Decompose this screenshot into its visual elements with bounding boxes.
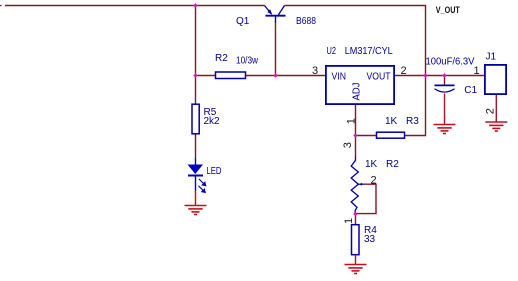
- svg-text:33: 33: [364, 234, 376, 245]
- junction node R2 left: [193, 73, 197, 77]
- svg-text:3: 3: [312, 65, 318, 77]
- capacitor C1 top plate: [435, 84, 455, 86]
- ground under C1: [434, 125, 456, 134]
- connector J1 box: [485, 65, 506, 94]
- junction node ADJ / R3: [353, 133, 357, 137]
- svg-text:1: 1: [474, 65, 480, 77]
- LED D1 triangle: [188, 158, 204, 174]
- svg-text:U2: U2: [327, 46, 337, 57]
- LED emission arrows: [199, 179, 206, 193]
- wire R3 right lead and vertical up to V_OUT node: [405, 76, 426, 136]
- resistor R2 body: [216, 72, 246, 79]
- wire LED cathode to ground: [195, 176, 197, 191]
- wire top rail left (input to Q1 emitter): [5, 5, 265, 7]
- transistor Q1 collector line: [278, 6, 284, 16]
- svg-text:R3: R3: [406, 116, 419, 127]
- svg-text:V_OUT: V_OUT: [436, 5, 460, 16]
- svg-text:Q1: Q1: [236, 16, 250, 27]
- wire pot bottom junction to R4: [355, 214, 357, 225]
- svg-text:100uF/6.3V: 100uF/6.3V: [426, 57, 475, 68]
- svg-text:1K: 1K: [385, 116, 398, 127]
- svg-text:10/3w: 10/3w: [236, 56, 259, 67]
- svg-text:2k2: 2k2: [204, 116, 221, 127]
- svg-text:LED: LED: [207, 166, 222, 177]
- ground under J1: [485, 122, 507, 131]
- svg-text:2: 2: [485, 108, 497, 114]
- transistor Q1 base bar: [266, 15, 286, 17]
- ground under R4: [345, 265, 367, 274]
- svg-text:C1: C1: [464, 85, 477, 96]
- wire C1 top lead: [444, 76, 446, 85]
- resistor R4 body: [352, 225, 360, 255]
- svg-text:1: 1: [345, 118, 357, 124]
- svg-text:B688: B688: [296, 16, 316, 27]
- junction node C1 tap: [442, 73, 446, 77]
- svg-text:J1: J1: [486, 52, 497, 63]
- potentiometer wiper arm with arrow: [356, 183, 376, 214]
- svg-text:3: 3: [342, 142, 354, 148]
- resistor R5 body: [192, 104, 199, 134]
- potentiometer R2 zigzag body: [351, 157, 358, 214]
- svg-text:LM317/CYL: LM317/CYL: [345, 46, 393, 57]
- svg-text:VIN: VIN: [332, 72, 347, 83]
- capacitor C1 curved plate: [435, 89, 455, 92]
- wire R2 right lead to U2 pin 3: [246, 75, 326, 77]
- svg-text:1K: 1K: [365, 159, 378, 170]
- wire top rail right (Q1 collector to V_OUT corner): [285, 6, 426, 76]
- wire Q1 base down to R2 output node: [275, 22, 277, 76]
- wire U2 pin 1 (ADJ) down to potentiometer: [355, 105, 357, 157]
- resistor R3 body: [377, 132, 405, 138]
- wire R4 bottom to ground: [355, 255, 357, 265]
- junction node V_OUT column: [423, 73, 427, 77]
- ground under LED: [185, 206, 207, 215]
- svg-text:VOUT: VOUT: [367, 72, 391, 83]
- svg-text:R2: R2: [386, 159, 399, 170]
- transistor Q1 base stub: [275, 17, 277, 23]
- svg-text:2: 2: [401, 65, 407, 77]
- LED cathode bar: [188, 175, 203, 177]
- wire R5 bottom to LED anode: [195, 134, 197, 158]
- wire R3 left lead: [356, 135, 377, 137]
- junction node Q1 base / R2 right: [273, 73, 277, 77]
- transistor Q1 emitter line with arrow (PNP): [265, 6, 273, 15]
- svg-text:1: 1: [343, 218, 355, 224]
- wire R2 left lead: [196, 75, 216, 77]
- wire J1 pin 2 to ground: [495, 95, 497, 122]
- op-amp U2 regulator box LM317: [326, 66, 394, 104]
- wire C1 bottom to ground: [444, 94, 446, 125]
- svg-text:R2: R2: [215, 53, 228, 64]
- junction node top rail: [193, 3, 197, 7]
- wire U2 pin 2 to J1 pin 1: [394, 75, 485, 77]
- svg-text:ADJ: ADJ: [352, 83, 363, 101]
- wire tick top-left edge: [0, 5, 2, 7]
- wire vertical from top rail down to R5: [195, 6, 197, 104]
- svg-text:2: 2: [371, 175, 377, 187]
- junction node pot bottom: [353, 212, 357, 216]
